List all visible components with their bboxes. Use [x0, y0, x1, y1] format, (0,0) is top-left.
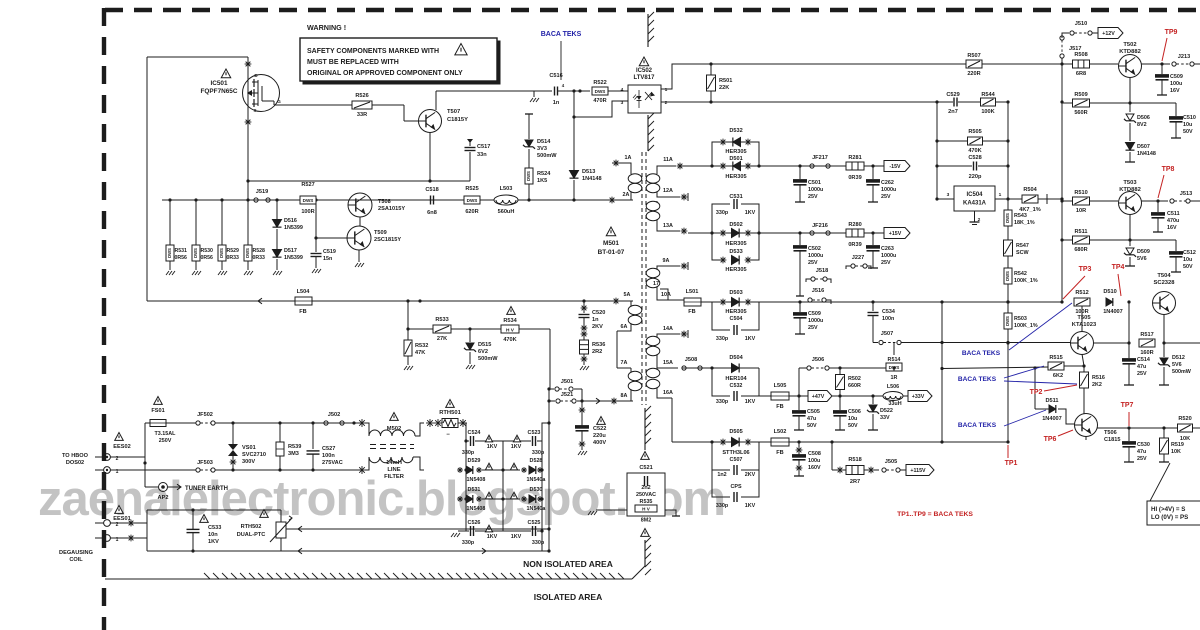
- svg-text:560uH: 560uH: [498, 209, 515, 215]
- svg-text:M501: M501: [603, 240, 619, 247]
- svg-text:J502: J502: [328, 412, 340, 418]
- capacitor C517: [465, 139, 491, 181]
- thermistor RTH502: [237, 510, 292, 552]
- capacitor C507 snubber: [712, 442, 759, 478]
- capacitor C521 box: [627, 452, 665, 524]
- svg-text:DWS: DWS: [595, 89, 606, 94]
- svg-text:D514: D514: [537, 139, 551, 145]
- svg-text:100n: 100n: [322, 453, 335, 459]
- capacitor C509 row3: [794, 302, 824, 334]
- wire y102 long: [709, 100, 1009, 103]
- svg-text:T3.15AL: T3.15AL: [155, 431, 177, 437]
- resistor R525: [464, 186, 480, 215]
- pin mark star EES01-1: [128, 535, 135, 542]
- svg-text:TP7: TP7: [1121, 402, 1134, 409]
- svg-text:R520: R520: [1178, 416, 1191, 422]
- jumper J510: [1062, 21, 1098, 38]
- svg-text:C263: C263: [881, 246, 894, 252]
- svg-text:1N540a: 1N540a: [527, 506, 547, 512]
- ferrite bead L502: [771, 429, 789, 456]
- wire y91 collector to C516: [436, 90, 552, 92]
- blue line BACA TEKS 3: [1004, 410, 1046, 426]
- svg-text:T508: T508: [378, 199, 391, 205]
- svg-text:IC502: IC502: [636, 68, 653, 74]
- wire D510 node down: [1128, 302, 1130, 343]
- svg-text:T506: T506: [1104, 430, 1117, 436]
- zener D514: [523, 114, 557, 168]
- note box HI/LO: [1147, 463, 1200, 525]
- wire IC502 pin2: [661, 101, 937, 103]
- winding secondary 14A-15A: [646, 334, 680, 368]
- svg-text:−: −: [446, 432, 450, 438]
- diode D531: [457, 487, 503, 512]
- svg-text:16V: 16V: [1170, 88, 1180, 94]
- svg-text:C506: C506: [848, 409, 861, 415]
- svg-text:FB: FB: [776, 404, 783, 410]
- svg-text:+47V: +47V: [812, 394, 825, 400]
- wire top-left horizontal: [147, 56, 248, 58]
- jumper J502: [324, 412, 344, 425]
- jumper J521: [547, 392, 583, 403]
- svg-text:L505: L505: [774, 383, 787, 389]
- capacitor C529: [946, 92, 959, 115]
- svg-text:1: 1: [999, 192, 1002, 198]
- diode D501: [720, 156, 752, 180]
- capacitor C263: [867, 233, 897, 268]
- wire row4 main: [682, 366, 714, 369]
- svg-text:JF217: JF217: [812, 155, 828, 161]
- svg-text:TP3: TP3: [1079, 266, 1092, 273]
- svg-text:8V2: 8V2: [1137, 122, 1147, 128]
- flag +15V: [884, 228, 910, 239]
- svg-text:FB: FB: [776, 450, 783, 456]
- capacitor C530: [1123, 428, 1150, 462]
- inductor L503: [494, 186, 518, 215]
- capacitor C505: [793, 396, 820, 430]
- svg-text:10K: 10K: [1171, 449, 1181, 455]
- svg-text:KA431A: KA431A: [963, 201, 987, 207]
- svg-text:D522: D522: [880, 408, 893, 414]
- warning note box: [300, 23, 500, 84]
- pin 2A: [609, 192, 630, 203]
- svg-text:1KV: 1KV: [745, 210, 756, 216]
- svg-text:R516: R516: [1092, 375, 1105, 381]
- svg-text:R528: R528: [253, 248, 266, 254]
- wire T509 base: [314, 236, 347, 239]
- svg-text:FS01: FS01: [151, 408, 164, 414]
- svg-text:DOS02: DOS02: [66, 460, 84, 466]
- svg-text:25V: 25V: [808, 260, 818, 266]
- svg-text:1KV: 1KV: [487, 444, 498, 450]
- pin mark star above IC501: [245, 61, 252, 68]
- svg-text:J510: J510: [1075, 21, 1087, 27]
- flag -15V: [884, 161, 910, 172]
- wire y428: [1127, 426, 1200, 429]
- wire y103: [1062, 102, 1176, 104]
- svg-text:47u: 47u: [1137, 364, 1146, 370]
- svg-text:220u: 220u: [593, 433, 606, 439]
- svg-text:C508: C508: [808, 451, 821, 457]
- diode D516: [273, 200, 303, 231]
- wire T505 collector: [1081, 306, 1083, 332]
- pin mark star filter in top: [358, 419, 366, 427]
- wire bridge DC out: [542, 421, 551, 441]
- svg-text:R533: R533: [435, 317, 448, 323]
- page border dashed top: [105, 8, 1200, 12]
- svg-text:R519: R519: [1171, 442, 1184, 448]
- resistor R531: [166, 200, 187, 275]
- svg-text:2R7: 2R7: [850, 479, 860, 485]
- svg-text:D506: D506: [1137, 115, 1150, 121]
- svg-text:AP2: AP2: [158, 495, 169, 501]
- svg-text:50V: 50V: [807, 423, 817, 429]
- svg-text:330p: 330p: [716, 210, 729, 216]
- rail x937: [935, 102, 938, 201]
- svg-text:100K_1%: 100K_1%: [1014, 323, 1038, 329]
- transistor T503: [1119, 180, 1142, 215]
- pin 5A: [613, 292, 631, 304]
- resistor R524: [525, 168, 551, 202]
- svg-text:TP8: TP8: [1162, 166, 1175, 173]
- svg-text:1KV: 1KV: [208, 539, 219, 545]
- blue label BACA TEKS 2: [958, 376, 997, 383]
- capacitor C532 snubber: [712, 368, 759, 405]
- svg-text:15n: 15n: [323, 256, 332, 262]
- svg-text:DWS: DWS: [303, 198, 314, 203]
- svg-text:C527: C527: [322, 446, 335, 452]
- svg-text:6n8: 6n8: [427, 210, 437, 216]
- diode D511: [1035, 368, 1075, 424]
- svg-text:0R56: 0R56: [201, 255, 214, 261]
- svg-text:H V: H V: [506, 328, 515, 334]
- pin 9A: [663, 258, 688, 270]
- svg-text:C512: C512: [1183, 250, 1196, 256]
- svg-text:50V: 50V: [1183, 264, 1193, 270]
- svg-text:DWS: DWS: [167, 248, 172, 258]
- pin mark star filter in bottom: [358, 466, 366, 474]
- svg-text:KTD882: KTD882: [1119, 187, 1141, 193]
- svg-text:IC504: IC504: [966, 192, 983, 198]
- svg-text:5V6: 5V6: [1172, 362, 1182, 368]
- svg-text:J508: J508: [685, 357, 697, 363]
- red line TP9: [1162, 38, 1167, 61]
- capacitor C519: [311, 200, 336, 273]
- svg-text:1n: 1n: [592, 317, 599, 323]
- svg-text:25V: 25V: [1137, 371, 1147, 377]
- svg-text:14A: 14A: [663, 326, 673, 332]
- red label TP3: [1079, 266, 1092, 273]
- svg-text:D503: D503: [729, 290, 742, 296]
- svg-text:14mH: 14mH: [386, 460, 402, 466]
- svg-text:13A: 13A: [663, 223, 673, 229]
- svg-text:1A: 1A: [625, 155, 632, 161]
- svg-text:500mW: 500mW: [1172, 369, 1192, 375]
- svg-text:3M3: 3M3: [288, 451, 299, 457]
- resistor R518: [837, 457, 879, 485]
- svg-text:8A: 8A: [621, 393, 628, 399]
- svg-text:JF503: JF503: [197, 460, 213, 466]
- wire R518 branch: [832, 442, 838, 470]
- svg-text:CPS: CPS: [730, 484, 741, 490]
- svg-text:10n: 10n: [208, 532, 218, 538]
- resistor R502: [836, 368, 861, 396]
- svg-text:18K_1%: 18K_1%: [1014, 220, 1035, 226]
- wire T507 emitter: [429, 132, 431, 181]
- capacitor C504 snubber: [712, 302, 759, 342]
- connector EES02: [95, 444, 131, 475]
- svg-text:R544: R544: [981, 92, 995, 98]
- svg-text:C523: C523: [528, 430, 541, 436]
- svg-text:FQPF7N65C: FQPF7N65C: [201, 88, 238, 95]
- red line TP6: [1058, 430, 1073, 436]
- svg-text:R525: R525: [465, 186, 478, 192]
- svg-text:1N5399: 1N5399: [284, 255, 303, 261]
- capacitor C508: [793, 442, 821, 476]
- resistor R512: [1074, 290, 1090, 315]
- svg-text:ISOLATED AREA: ISOLATED AREA: [534, 592, 602, 602]
- wire R515 row: [942, 366, 1084, 370]
- svg-text:TP9: TP9: [1165, 29, 1178, 36]
- red line TP3: [1063, 276, 1085, 299]
- wire 8A feed: [582, 398, 633, 405]
- svg-text:TP1: TP1: [1005, 460, 1018, 467]
- svg-text:500mW: 500mW: [478, 356, 498, 362]
- svg-text:2n2: 2n2: [641, 485, 650, 491]
- svg-text:100K_1%: 100K_1%: [1014, 278, 1038, 284]
- pin 14A: [663, 326, 688, 338]
- svg-text:250V: 250V: [159, 438, 172, 444]
- wire T503 emitter: [1128, 215, 1131, 246]
- svg-text:R535: R535: [640, 499, 653, 505]
- svg-text:D502: D502: [729, 222, 742, 228]
- svg-text:C532: C532: [730, 383, 743, 389]
- label LTV817: [634, 75, 656, 81]
- pin 7A: [621, 360, 628, 366]
- wire row2 main: [688, 231, 884, 234]
- capacitor C526: [462, 520, 503, 546]
- wire C521 right: [665, 510, 680, 516]
- svg-text:C502: C502: [808, 246, 821, 252]
- warning mark below C521: [641, 529, 650, 537]
- svg-text:C529: C529: [946, 92, 959, 98]
- svg-text:J513: J513: [1180, 191, 1192, 197]
- arrow right on bottom wire: [482, 548, 486, 554]
- svg-text:1n: 1n: [553, 100, 560, 106]
- winding secondary 11A-12A: [646, 166, 680, 197]
- svg-text:R511: R511: [1074, 229, 1087, 235]
- wire J-column vertical x549: [548, 389, 550, 551]
- svg-text:1KV: 1KV: [487, 534, 498, 540]
- svg-text:IC501: IC501: [210, 80, 227, 87]
- svg-text:C510: C510: [1183, 115, 1196, 121]
- isolation barrier hatched line: [105, 12, 654, 579]
- thermistor RTH501: [426, 400, 467, 439]
- svg-text:HER305: HER305: [725, 149, 746, 155]
- svg-text:HER305: HER305: [725, 174, 746, 180]
- svg-text:zaenalelectronic.blogspot.com: zaenalelectronic.blogspot.com: [38, 472, 725, 526]
- svg-text:1N4007: 1N4007: [1042, 416, 1062, 422]
- resistor R532: [404, 329, 428, 370]
- svg-text:33n: 33n: [477, 152, 487, 158]
- svg-text:M502: M502: [387, 426, 402, 432]
- diode D510: [1103, 289, 1130, 315]
- line filter M502: [365, 413, 424, 481]
- capacitor C514: [1123, 343, 1150, 385]
- wire T507 collector: [435, 91, 437, 110]
- svg-text:1000u: 1000u: [881, 253, 896, 259]
- capacitor C524: [462, 430, 503, 456]
- svg-text:6A: 6A: [621, 324, 628, 330]
- svg-text:C521: C521: [639, 465, 652, 471]
- wire flag to L506: [832, 394, 884, 397]
- varistor VS01: [228, 423, 266, 470]
- svg-text:TP6: TP6: [1044, 436, 1057, 443]
- capacitor C506: [834, 396, 861, 430]
- rail x1008: [1006, 102, 1009, 442]
- red line TP7: [1128, 412, 1130, 426]
- svg-text:KTD882: KTD882: [1119, 49, 1141, 55]
- svg-text:220R: 220R: [967, 71, 980, 77]
- svg-text:250VAC: 250VAC: [636, 492, 656, 498]
- svg-text:T509: T509: [374, 230, 387, 236]
- svg-text:8M2: 8M2: [641, 518, 652, 524]
- svg-text:6V2: 6V2: [478, 349, 488, 355]
- svg-text:HI (>4V) = S: HI (>4V) = S: [1151, 506, 1185, 513]
- warning mark IC501: [221, 69, 231, 78]
- svg-text:J506: J506: [812, 357, 824, 363]
- svg-text:C531: C531: [729, 194, 742, 200]
- svg-text:LINE: LINE: [387, 467, 400, 473]
- svg-text:9A: 9A: [663, 258, 670, 264]
- svg-text:C514: C514: [1137, 357, 1150, 363]
- svg-text:680R: 680R: [1074, 247, 1087, 253]
- pin 13A: [663, 223, 687, 234]
- svg-text:2K2: 2K2: [1092, 382, 1102, 388]
- wire J506 riser: [798, 368, 800, 396]
- warning mark IC502: [639, 57, 649, 66]
- svg-text:TP1..TP9 = BACA TEKS: TP1..TP9 = BACA TEKS: [897, 511, 973, 518]
- blue line BACA TEKS 1: [1009, 303, 1072, 350]
- wire emitter row y181: [246, 179, 470, 182]
- svg-text:JF216: JF216: [812, 223, 828, 229]
- diode D505: [712, 429, 759, 456]
- winding secondary 15A-16A: [646, 368, 672, 398]
- svg-text:+33V: +33V: [912, 394, 925, 400]
- red label TP7: [1121, 402, 1134, 409]
- svg-text:0R39: 0R39: [848, 242, 861, 248]
- svg-text:DEGAUSING: DEGAUSING: [59, 550, 93, 556]
- warning mark EES01: [115, 506, 124, 514]
- resistor R520: [1178, 416, 1193, 442]
- jumper J213: [1172, 54, 1200, 66]
- wire row4 out: [759, 394, 808, 397]
- svg-text:T504: T504: [1157, 273, 1171, 279]
- red label TP2: [1030, 389, 1043, 396]
- svg-text:TP4: TP4: [1112, 264, 1125, 271]
- svg-text:R507: R507: [967, 53, 980, 59]
- svg-text:R281: R281: [848, 155, 861, 161]
- svg-text:T505: T505: [1077, 315, 1091, 321]
- svg-text:1000u: 1000u: [881, 187, 896, 193]
- svg-text:275VAC: 275VAC: [322, 460, 343, 466]
- svg-text:10u: 10u: [848, 416, 857, 422]
- svg-text:17: 17: [653, 281, 659, 287]
- svg-text:10u: 10u: [1183, 122, 1192, 128]
- svg-text:C518: C518: [425, 187, 438, 193]
- svg-text:100R: 100R: [301, 209, 314, 215]
- svg-text:LTV817: LTV817: [634, 75, 656, 81]
- jumper J508: [682, 357, 702, 370]
- svg-text:DWS: DWS: [526, 171, 531, 181]
- warning mark M501: [606, 227, 616, 236]
- wire T502 emitter: [1128, 78, 1131, 112]
- jumper J505: [882, 459, 906, 472]
- svg-text:25V: 25V: [808, 325, 818, 331]
- arrow on degauss bottom: [298, 548, 302, 554]
- wire T502 to J213: [1141, 62, 1170, 65]
- svg-text:470K: 470K: [503, 337, 516, 343]
- capacitor C262: [867, 166, 897, 202]
- svg-text:C533: C533: [208, 525, 221, 531]
- svg-text:1KV: 1KV: [745, 336, 756, 342]
- capacitor C525: [503, 520, 545, 546]
- zener D522: [867, 396, 893, 430]
- svg-text:D533: D533: [729, 249, 742, 255]
- svg-text:C507: C507: [730, 457, 743, 463]
- svg-text:D512: D512: [1172, 355, 1185, 361]
- resistor R514: [886, 343, 902, 382]
- connector EES01: [95, 516, 131, 543]
- winding primary 5A-6A: [616, 301, 642, 331]
- svg-text:G: G: [277, 99, 281, 104]
- svg-text:R524: R524: [537, 171, 551, 177]
- diode D528: [503, 458, 546, 483]
- flag +33V: [903, 391, 932, 402]
- svg-text:C509: C509: [1170, 74, 1183, 80]
- resistor R280: [846, 222, 864, 248]
- svg-text:330p: 330p: [532, 450, 545, 456]
- svg-text:FILTER: FILTER: [384, 474, 405, 480]
- transistor T506: [1075, 414, 1121, 444]
- svg-text:1R: 1R: [891, 375, 898, 381]
- svg-text:KTA1023: KTA1023: [1072, 322, 1097, 328]
- pin mark star EES01-2: [128, 520, 135, 527]
- wire AP2: [145, 457, 158, 487]
- svg-text:100u: 100u: [808, 458, 820, 464]
- flag +47V: [808, 391, 832, 402]
- svg-text:HER104: HER104: [725, 376, 747, 382]
- wire row5 main: [672, 398, 714, 444]
- svg-text:620R: 620R: [465, 209, 478, 215]
- wire T504 emitter: [1162, 314, 1165, 345]
- svg-text:RTH501: RTH501: [439, 410, 461, 416]
- winding secondary 9A-10A: [646, 266, 684, 300]
- svg-text:J519: J519: [256, 189, 268, 195]
- svg-text:R518: R518: [848, 457, 861, 463]
- svg-text:J518: J518: [816, 268, 828, 274]
- svg-text:R280: R280: [848, 222, 861, 228]
- svg-text:H V: H V: [642, 507, 651, 512]
- jumper J227: [846, 255, 871, 269]
- svg-text:L502: L502: [774, 429, 787, 435]
- svg-text:L501: L501: [686, 289, 699, 295]
- wire y201: [1062, 200, 1118, 202]
- pin 11A: [663, 157, 683, 169]
- capacitor C516: [549, 73, 564, 106]
- winding primary 1A-2A: [612, 163, 642, 200]
- svg-text:C517: C517: [477, 144, 490, 150]
- svg-text:10A: 10A: [661, 292, 671, 298]
